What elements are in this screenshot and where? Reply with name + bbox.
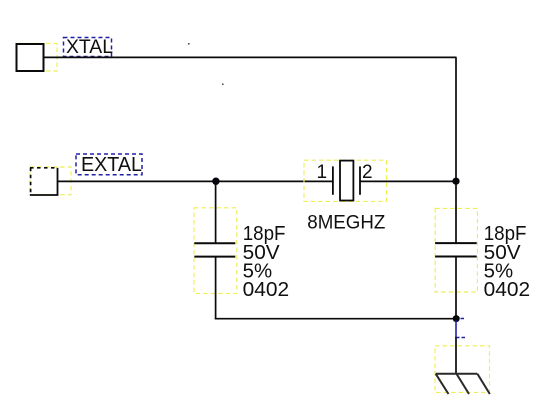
capacitor C-left selection box (yellow dashed) [194,208,237,294]
wire right cap vertical (top) [455,181,457,243]
svg-text:0402: 0402 [243,279,290,301]
capacitor C-left bottom plate [194,256,235,258]
junction node bottom (bus / ground) [453,315,460,322]
crystal Y1 selection box (yellow dashed) [304,160,387,201]
svg-text:1: 1 [317,162,328,183]
wire crystal right to vertical bus [360,180,456,182]
crystal Y1 body rectangle [340,161,353,201]
crystal pin number 1 [317,162,328,183]
svg-text:XTAL: XTAL [66,36,113,58]
crystal Y1 right electrode [359,166,361,194]
junction node left (EXTAL / C-left) [212,178,219,185]
stray screenshot dot upper [188,43,190,45]
wire ground vertical [455,338,457,375]
svg-text:EXTAL: EXTAL [81,154,142,176]
wire EXTAL horizontal [58,180,333,182]
port EXTAL selection box (yellow dashed) [30,167,71,195]
svg-text:2: 2 [362,162,373,183]
capacitor C-right value text block [484,223,531,301]
ground hatch stroke 2 [457,374,470,394]
stray screenshot dot lower [222,84,224,86]
label XTAL selection box (blue dashed) [64,38,112,57]
selection handle dash right of junction [461,318,465,320]
ground hatch stroke 3 [477,374,489,394]
crystal pin number 2 [362,162,373,183]
wire right cap vertical (bottom) [455,257,457,320]
port XTAL selection box (yellow dashed) [16,44,57,72]
wire left cap vertical (top) [215,181,217,243]
port XTAL pad square [17,44,44,71]
crystal Y1 left electrode [332,166,334,194]
wire bottom horizontal [215,318,457,320]
ground hatch stroke 1 [436,374,449,394]
capacitor C-right top plate [435,242,477,244]
label XTAL text [66,36,113,58]
svg-text:0402: 0402 [484,279,531,301]
ground symbol bar [436,373,478,375]
wire left cap vertical (bottom) [215,257,217,320]
junction node right (crystal / bus) [452,178,459,185]
capacitor C-left top plate [194,242,235,244]
selected wire segment (blue) below junction [455,321,457,338]
capacitor C-right selection box (yellow dashed) [435,208,477,292]
wire XTAL vertical drop at right [455,57,457,181]
svg-text:8MEGHZ: 8MEGHZ [307,212,385,234]
capacitor C-right bottom plate [435,256,477,258]
label EXTAL selection box (blue dashed) [76,154,142,175]
label EXTAL text [81,154,142,176]
wire XTAL horizontal [44,56,457,58]
ground symbol selection box (yellow dashed) [435,346,490,393]
selection handle dashes at blue segment end [455,337,465,339]
capacitor C-left value text block [243,223,290,301]
port EXTAL pad square [30,168,59,195]
crystal value label 8MEGHZ [307,212,385,234]
